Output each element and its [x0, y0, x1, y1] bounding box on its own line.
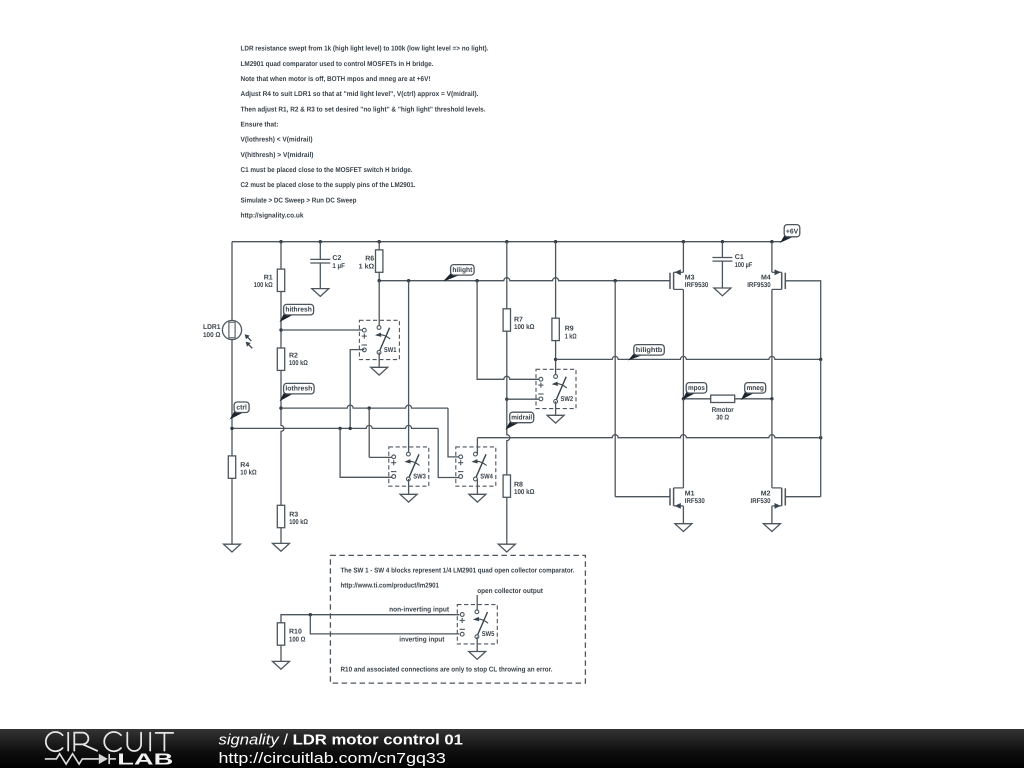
label R6 — [359, 256, 375, 271]
node hithresh flag — [281, 304, 314, 321]
resistor R9 — [552, 318, 559, 340]
ground — [469, 637, 486, 660]
label non-inverting input — [389, 606, 450, 614]
wire — [771, 289, 773, 398]
wire — [378, 281, 380, 328]
junction dots motor row — [682, 397, 774, 400]
resistor R2 — [277, 348, 284, 370]
label R7 — [514, 316, 535, 331]
wire mpos-Rmotor-mneg — [683, 398, 772, 400]
wire SW4 output to hilightb rail — [477, 435, 820, 455]
wire — [682, 289, 684, 398]
node midrail flag — [507, 412, 534, 428]
wire lothresh to SW3 + input — [369, 408, 391, 457]
ground — [675, 506, 692, 532]
transistor M1 — [670, 488, 683, 509]
svg-text:LAB: LAB — [117, 752, 173, 768]
wire SW5 output stub — [476, 595, 478, 610]
wire R10 to SW5 + input — [281, 615, 459, 623]
wire — [507, 398, 539, 400]
resistor R4 — [228, 456, 235, 478]
label R3 — [289, 511, 308, 526]
ground — [273, 645, 290, 669]
junction lothresh row — [279, 406, 282, 409]
wire — [280, 292, 282, 349]
schematic notes text — [241, 45, 489, 220]
wire — [408, 281, 410, 455]
wire — [820, 359, 822, 496]
label LDR1 — [203, 324, 221, 339]
ground — [312, 263, 329, 296]
wire M2 gate to hilightb rail — [785, 496, 820, 498]
comment box (dashed) — [330, 555, 585, 683]
ground — [714, 261, 731, 296]
label R2 — [289, 353, 308, 368]
wire ctrl to SW3 - input — [340, 428, 391, 477]
wire hilight to M1 gate — [615, 281, 670, 497]
junction midrail to SW2 - — [505, 398, 508, 401]
wire midrail down to R8 (hops row) — [507, 399, 510, 475]
node hilightb flag — [630, 345, 665, 360]
resistor R10 — [277, 623, 284, 645]
ground — [498, 497, 515, 552]
wire M4 gate to hilightb rail — [785, 281, 820, 360]
wire ctrl to SW4 - input — [438, 428, 460, 477]
wire hilight to SW2 + input (hops midrail col) — [477, 281, 539, 380]
wire to SW5 - input — [310, 615, 459, 634]
ground — [371, 352, 388, 375]
wire — [771, 399, 773, 488]
wire — [771, 242, 773, 273]
switch (comparator) SW5 — [457, 605, 497, 644]
resistor R7 — [503, 309, 510, 331]
LDR LDR1 — [222, 320, 252, 348]
wire — [721, 242, 723, 258]
wire — [378, 272, 380, 280]
wire — [682, 242, 684, 273]
switch (comparator) SW2 — [536, 369, 576, 408]
ground — [763, 506, 780, 532]
wire SW1 - input down to ctrl row — [350, 350, 364, 429]
wire — [231, 242, 233, 321]
resistor R6 — [376, 250, 383, 272]
comment box text — [341, 566, 575, 673]
wire hilightb row (R9 to M4/M2 gate rail) — [556, 356, 821, 359]
ground — [273, 528, 290, 552]
label R4 — [240, 462, 257, 477]
wire — [506, 242, 508, 309]
junction R1/R2/SW1+ — [279, 328, 282, 331]
junction hilightb row — [554, 358, 557, 361]
label M1 — [685, 490, 705, 505]
wire ctrl row — [232, 425, 438, 428]
switch (comparator) SW4 — [456, 447, 496, 486]
wire — [378, 242, 380, 250]
node hilight flag — [444, 265, 474, 281]
ground — [400, 479, 417, 502]
transistor M2 — [772, 488, 785, 509]
label R8 — [514, 481, 535, 496]
wire — [555, 242, 557, 319]
node +6V flag — [781, 225, 800, 242]
node mneg flag — [742, 383, 766, 399]
node lothresh flag — [281, 383, 314, 400]
wire — [506, 331, 508, 399]
transistor M3 — [670, 269, 683, 289]
label C2 — [332, 255, 345, 270]
wire M3 gate lead — [0, 0, 1, 1]
label R9 — [565, 326, 577, 341]
label R1 — [254, 274, 273, 289]
label M2 — [751, 490, 771, 505]
footer bar — [0, 729, 1024, 768]
wire lothresh row — [281, 405, 448, 408]
wire top +6V rail — [232, 241, 781, 243]
wire — [281, 329, 362, 331]
ground — [547, 401, 564, 423]
junction dots ctrl row — [230, 427, 352, 430]
label M3 — [685, 274, 709, 289]
switch (comparator) SW1 — [359, 320, 399, 359]
wire R2 bottom to R3 (hops ctrl row) — [281, 370, 284, 505]
resistor R1 — [277, 269, 284, 291]
svg-text:signality / LDR motor control: signality / LDR motor control 01 — [219, 731, 463, 748]
junction dots on top rail — [279, 240, 773, 243]
label Rmotor — [712, 407, 734, 421]
label C1 — [735, 254, 753, 269]
wire — [682, 399, 684, 488]
label R10 — [289, 629, 306, 644]
wire — [280, 242, 282, 269]
ground — [469, 479, 486, 502]
wire — [319, 242, 321, 260]
node mpos flag — [683, 383, 706, 399]
resistor Rmotor — [711, 395, 735, 402]
label open collector output — [477, 587, 543, 595]
svg-text:http://circuitlab.com/cn7gq33: http://circuitlab.com/cn7gq33 — [219, 750, 446, 767]
wire — [555, 341, 557, 377]
resistor R8 — [503, 475, 510, 497]
wire hilight row (R6/SW1 to M3 gate) — [379, 278, 670, 281]
wire — [231, 340, 233, 429]
wire — [231, 428, 233, 456]
switch (comparator) SW3 — [389, 447, 429, 486]
junction R10 wire — [309, 613, 312, 616]
node ctrl flag — [231, 402, 249, 418]
label inverting input — [399, 635, 445, 643]
label M4 — [747, 274, 771, 289]
capacitor C1 — [712, 258, 732, 262]
junction dots hilight row — [378, 279, 617, 282]
capacitor C2 — [310, 259, 330, 263]
wire lothresh to SW4 + input — [448, 408, 460, 457]
junction dots hilightb rail — [819, 358, 822, 440]
transistor M4 — [772, 269, 785, 289]
junction to SW3 + — [368, 406, 371, 409]
resistor R3 — [277, 505, 284, 527]
ground — [224, 478, 241, 552]
